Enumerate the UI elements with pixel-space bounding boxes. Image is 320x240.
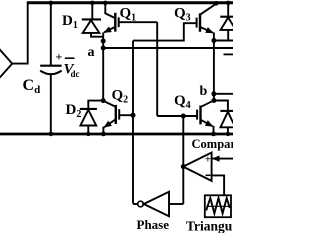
wire right leg (node b): [213, 41, 215, 102]
wire top DC bus: [27, 1, 233, 4]
label Vdc with overbar: [64, 58, 80, 79]
diode D4: [220, 111, 235, 136]
node b load tap: [211, 91, 216, 96]
wire load from node b: [214, 93, 233, 95]
wire comparator output vertical: [182, 116, 184, 204]
wire comparator + input with arrow: [213, 158, 233, 160]
wire Q4 gate lead: [157, 115, 197, 117]
capacitor Cd bottom wire: [50, 74, 52, 134]
wire Q2 gate lead: [119, 114, 133, 116]
wire b upper to right edge: [214, 40, 233, 42]
svg-text:a: a: [88, 45, 95, 60]
IGBT Q4: [197, 100, 216, 136]
label minus load (short segment): [224, 53, 234, 55]
IGBT Q1: [103, 1, 119, 33]
wire load from node a: [103, 47, 233, 49]
node comparator output tap on Q4 gate lead: [181, 114, 186, 119]
svg-text:Compar: Compar: [192, 137, 234, 151]
svg-text:b: b: [200, 84, 208, 99]
node a junction (D1 anode / Q1 emitter): [101, 39, 106, 44]
capacitor Cd top wire: [50, 3, 52, 66]
wire Q1-Q4 gate link vertical: [156, 22, 158, 116]
wire rectifier output to top bus riser: [12, 63, 28, 65]
wire bottom DC bus: [0, 133, 233, 136]
wire top bus riser: [27, 3, 29, 65]
wire left leg (node a): [102, 32, 104, 101]
svg-text:+: +: [205, 154, 211, 166]
node comparator output: [181, 164, 186, 169]
diode D1: [82, 1, 103, 37]
node cap bottom bus junction: [49, 132, 54, 137]
rectifier bridge diamond (cropped at left edge): [0, 48, 12, 80]
op-amp comparator U1: [183, 153, 212, 181]
diode D2: [80, 101, 103, 136]
wire Q1 gate lead: [119, 21, 158, 23]
IGBT Q2: [101, 98, 120, 136]
svg-text:+: +: [56, 50, 63, 64]
svg-text:dc: dc: [71, 69, 80, 79]
wire Q3 gate lead: [133, 23, 197, 40]
capacitor Cd: [40, 66, 61, 75]
svg-text:Phase: Phase: [137, 217, 170, 232]
node b lower junction: [211, 98, 216, 103]
IGBT Q3: [197, 1, 219, 41]
svg-text:Triangu: Triangu: [186, 219, 233, 234]
node a load tap: [101, 46, 106, 51]
phase shifter inverter: [133, 192, 183, 216]
diode D3: [220, 1, 236, 41]
wire node b to D4 cathode: [214, 101, 228, 112]
wire Q2-Q3 gate link vertical (phase output): [132, 41, 134, 204]
triangle wave generator box: [205, 195, 231, 217]
node Q2 gate junction: [131, 113, 136, 118]
node cap top bus junction: [49, 1, 54, 6]
node b upper junction: [211, 38, 216, 43]
wire comparator - input to triangle box: [212, 175, 225, 195]
